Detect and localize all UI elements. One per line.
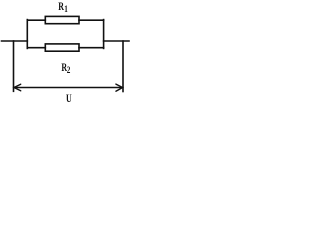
wire right lead <box>104 40 129 42</box>
resistor R2 <box>45 44 79 51</box>
wire left lead <box>2 40 28 42</box>
wire bottom branch right <box>79 47 104 49</box>
wire top branch right <box>79 19 104 21</box>
wire top branch left <box>27 19 45 21</box>
wire bottom branch left <box>27 47 45 49</box>
svg-text:U: U <box>66 93 72 105</box>
wire U arrow shaft <box>14 87 123 89</box>
arrowhead right <box>116 84 123 91</box>
svg-text:2: 2 <box>67 65 71 75</box>
wire right drop to arrow <box>122 41 124 92</box>
arrowhead left <box>14 84 21 91</box>
svg-text:1: 1 <box>64 4 68 14</box>
resistor R1 <box>45 16 79 23</box>
node left junction bar <box>26 20 28 49</box>
node right junction bar <box>103 20 105 49</box>
wire left drop to arrow <box>13 41 15 91</box>
